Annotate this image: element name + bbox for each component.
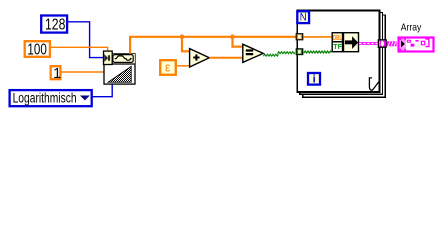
wire 100 to ramp (DBL orange) (50, 47, 108, 51)
svg-text:100: 100 (27, 42, 47, 59)
svg-text:i: i (313, 74, 316, 86)
for loop main frame (297, 11, 379, 92)
bundle node DBL/TF (332, 33, 358, 52)
equal function (243, 44, 263, 62)
for loop folded corner (dog-ear) (369, 78, 372, 91)
boolean wire equal to loop (green zigzag) (263, 52, 295, 57)
numeric constant 128 (41, 16, 67, 34)
add function (190, 49, 210, 67)
Ramp Pattern VI (103, 51, 135, 84)
array cluster wire tunnel to indicator (striped magenta) (387, 41, 397, 46)
svg-text:TF: TF (333, 42, 342, 51)
for loop (stacked frame echo sheet 2) (303, 15, 386, 97)
boolean wire tunnel to bundle (green zigzag) (304, 51, 331, 53)
wire Logarithmisch to ramp (93, 85, 113, 97)
input tunnel DBL array (indexing) (296, 34, 302, 40)
cluster wire bundle to tunnel (magenta dashed) (359, 42, 378, 45)
svg-text:ε: ε (165, 61, 171, 75)
wire junction 2 (230, 35, 235, 40)
svg-text:Array: Array (401, 21, 422, 33)
wire 1 to ramp (61, 71, 103, 73)
output tunnel indexing (378, 40, 386, 47)
iteration terminal i (308, 73, 320, 86)
wire ramp output (DBL array orange) (130, 37, 296, 54)
enum constant Logarithmisch (10, 90, 92, 106)
loop count terminal N (297, 11, 309, 23)
epsilon constant (160, 60, 176, 75)
wire epsilon to add (177, 65, 189, 67)
wire tunnel to bundle (DBL orange) (304, 36, 332, 38)
svg-text:DBL: DBL (333, 33, 342, 42)
svg-text:128: 128 (45, 17, 65, 34)
wire add output (209, 57, 242, 59)
svg-text:N: N (300, 12, 307, 24)
numeric constant 100 (25, 41, 50, 58)
wire branch to add (182, 37, 189, 52)
input tunnel boolean (indexing) (296, 49, 302, 55)
svg-text:1: 1 (53, 66, 61, 82)
wire junction 1 (180, 35, 185, 40)
wire branch to equal (233, 37, 243, 47)
wire 128 to ramp (I32 blue) (66, 22, 103, 58)
numeric constant 1 (51, 66, 61, 82)
array indicator terminal (399, 38, 434, 52)
for loop (stacked frame echo sheet 1) (300, 13, 383, 95)
svg-text:Logarithmisch: Logarithmisch (13, 91, 77, 106)
